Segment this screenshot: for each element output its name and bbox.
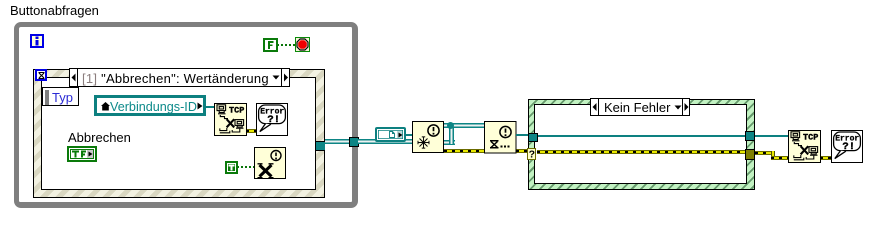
selector text bbox=[82, 71, 269, 86]
error wire case to TCP3 bbox=[755, 151, 773, 155]
case tunnel right (conn) bbox=[745, 131, 755, 141]
class constant (page glyph) bbox=[375, 127, 406, 142]
VI1 (starburst with error) bbox=[412, 121, 444, 153]
simple error handler Error?! (icon 4) bbox=[831, 130, 863, 163]
event structure interior bbox=[41, 77, 316, 190]
svg-text:?: ? bbox=[528, 149, 534, 159]
error wire TCP1 to Error1 bbox=[246, 129, 256, 133]
VI2 (hourglass wait with error) bbox=[484, 121, 517, 154]
teal wire inside case bbox=[537, 135, 745, 137]
event selector label bbox=[69, 68, 290, 87]
false constant F bbox=[263, 38, 278, 52]
event timeout terminal (hourglass) bbox=[35, 69, 47, 81]
event data node Typ bbox=[42, 87, 79, 106]
control reference Verbindungs-ID bbox=[94, 95, 207, 116]
case structure (green striped border) bbox=[528, 99, 755, 190]
clear errors VI (X icon) bbox=[254, 147, 286, 179]
svg-text:TCP: TCP bbox=[803, 133, 818, 143]
svg-text:?!: ?! bbox=[842, 141, 855, 153]
event structure tunnel (conn id) bbox=[316, 141, 326, 151]
wire T to clear errors (boolean dotted) bbox=[237, 166, 254, 168]
case selector terminal ? bbox=[527, 148, 537, 160]
label Abbrechen bbox=[68, 130, 131, 145]
wire event tunnel to loop tunnel bbox=[325, 139, 349, 144]
wire Verbindungs-ID to TCP1 bbox=[205, 106, 215, 108]
while loop bbox=[14, 22, 358, 208]
wire VI2 to case tunnel bbox=[516, 134, 528, 136]
wire loop tunnel to VI1 bbox=[358, 139, 412, 144]
right arrow cell bbox=[281, 69, 290, 86]
svg-text:?!: ?! bbox=[267, 114, 280, 126]
upper band VI1 to VI2 bbox=[444, 123, 485, 128]
junction dot bbox=[447, 122, 454, 129]
loop condition stop terminal bbox=[295, 37, 310, 52]
TCP close connection VI (icon 3) bbox=[788, 130, 821, 163]
true constant T bbox=[225, 161, 238, 174]
wire D const to VI1 bbox=[405, 134, 412, 136]
simple error handler Error?! (icon) bbox=[256, 103, 288, 136]
wire case to TCP3 (teal) bbox=[755, 135, 789, 137]
iteration terminal i bbox=[30, 34, 44, 48]
dropdown triangle bbox=[272, 75, 280, 81]
case selector label Kein Fehler bbox=[590, 98, 690, 116]
error wire VI1 to case selector (passes behind VI2) bbox=[444, 149, 528, 153]
error wire inside case bbox=[537, 150, 745, 154]
boolean terminal TF (Abbrechen) bbox=[67, 146, 97, 162]
stub band right of VI1 bbox=[444, 140, 455, 145]
case tunnel left (conn) bbox=[528, 133, 538, 143]
case tunnel right (error) bbox=[745, 149, 755, 160]
vertical band bbox=[449, 123, 454, 144]
house glyph bbox=[101, 102, 110, 111]
label Buttonabfragen bbox=[10, 3, 99, 18]
svg-text:TCP: TCP bbox=[229, 105, 244, 115]
TCP close connection VI (icon 1) bbox=[214, 103, 247, 136]
wire F to stop (boolean dotted) bbox=[277, 44, 296, 46]
case interior bbox=[534, 104, 747, 184]
event structure (striped border) bbox=[33, 69, 325, 198]
left arrow cell bbox=[70, 69, 78, 86]
error wire TCP3 to Error4 bbox=[820, 156, 832, 160]
while loop tunnel bbox=[349, 137, 359, 147]
